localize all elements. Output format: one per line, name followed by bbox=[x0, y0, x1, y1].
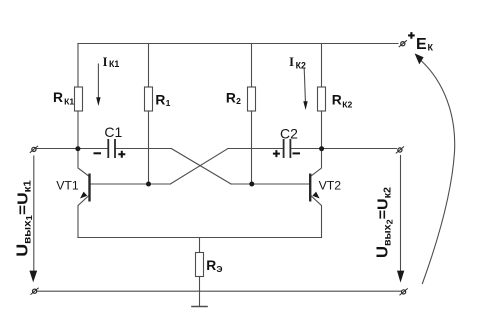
arrow Uvyh1 measure line bbox=[33, 156, 35, 271]
wire VT1 base rail bbox=[91, 183, 171, 185]
arc feedback curve to Ek bbox=[421, 61, 455, 284]
label C2 minus sign bbox=[293, 152, 301, 154]
resistor RK2 bbox=[318, 87, 326, 111]
label C2 plus sign bbox=[273, 150, 280, 157]
ground bbox=[192, 306, 207, 308]
resistor R2 bbox=[248, 87, 256, 111]
resistor RK1 bbox=[75, 87, 83, 111]
wire R1 bottom lead bbox=[148, 111, 150, 184]
svg-text:К1: К1 bbox=[109, 59, 119, 69]
transistor VT2 base bar bbox=[309, 174, 311, 202]
capacitor C1 plates bbox=[108, 139, 115, 158]
wire RE top lead bbox=[199, 238, 201, 253]
node collector VT2 junction bbox=[319, 146, 324, 151]
wire RK2 top lead bbox=[321, 44, 323, 88]
svg-text:RЭ: RЭ bbox=[206, 258, 222, 274]
terminal right bottom bbox=[402, 290, 406, 294]
wire C2 to right terminal bbox=[291, 148, 396, 150]
svg-text:Uвых1=Uк1: Uвых1=Uк1 bbox=[14, 180, 35, 257]
resistor R1 bbox=[145, 87, 153, 111]
transistor VT1 collector bbox=[78, 149, 89, 177]
svg-text:R1: R1 bbox=[155, 93, 170, 108]
transistor VT1 base bar bbox=[88, 174, 90, 202]
arrowhead IK1 bbox=[96, 97, 100, 106]
wire RK2 bottom lead bbox=[321, 111, 323, 149]
transistor VT2 emitter bbox=[310, 195, 321, 238]
arrowhead Uvyh2 bbox=[397, 271, 404, 283]
svg-text:Uвых2=Uк2: Uвых2=Uк2 bbox=[374, 187, 394, 258]
wire emitter rail bbox=[78, 237, 322, 239]
terminal input left top bbox=[32, 147, 36, 151]
terminal output right top bbox=[398, 148, 402, 152]
transistor VT2 collector bbox=[310, 149, 321, 177]
svg-text:VT2: VT2 bbox=[319, 179, 342, 193]
wire crossover to C2 bbox=[228, 148, 283, 150]
capacitor C2 plates bbox=[284, 139, 291, 158]
arrowhead VT1 emitter bbox=[80, 192, 87, 199]
arrowhead feedback arc at Ek bbox=[415, 53, 424, 64]
label C1 minus sign bbox=[94, 152, 102, 154]
wire crossover diagonal down bbox=[171, 149, 231, 185]
node A collector VT1 junction bbox=[75, 146, 80, 151]
arrowhead VT2 emitter bbox=[312, 192, 319, 199]
svg-text:R2: R2 bbox=[226, 90, 241, 106]
svg-text:C1: C1 bbox=[104, 124, 122, 140]
svg-text:EК: EК bbox=[416, 36, 433, 53]
wire R2 bottom lead bbox=[251, 111, 253, 184]
svg-text:RК2: RК2 bbox=[332, 93, 353, 110]
svg-text:VT1: VT1 bbox=[56, 178, 79, 192]
wire RK1 top lead bbox=[77, 44, 79, 88]
wire R2 top lead bbox=[251, 44, 253, 88]
label +Ek plus sign bbox=[408, 32, 415, 39]
wire RE bottom lead to ground bbox=[199, 277, 201, 307]
node R2 to base VT2 junction bbox=[249, 182, 254, 187]
wire top supply rail bbox=[78, 43, 398, 45]
arrow current IK2 bbox=[304, 68, 305, 101]
svg-text:I: I bbox=[289, 55, 294, 69]
wire left input to C1 bbox=[36, 148, 108, 150]
node R1 to base VT1 junction bbox=[146, 182, 151, 187]
wire C1 to crossover bbox=[116, 148, 172, 150]
svg-text:К2: К2 bbox=[296, 60, 306, 70]
wire bottom rail bbox=[37, 290, 401, 292]
terminal +Ek bbox=[401, 42, 405, 46]
svg-text:C2: C2 bbox=[280, 125, 298, 141]
transistor VT1 emitter bbox=[78, 195, 90, 238]
wire crossover to VT2 base bbox=[231, 183, 309, 185]
arrowhead Uvyh1 bbox=[29, 271, 37, 283]
wire crossover diagonal up bbox=[170, 149, 228, 185]
terminal left bottom bbox=[33, 289, 37, 293]
arrow current IK1 bbox=[97, 64, 99, 98]
arrowhead IK2 bbox=[303, 101, 307, 110]
wire R1 top lead bbox=[148, 44, 150, 88]
wire RK1 bottom lead bbox=[77, 111, 79, 149]
arrow Uvyh2 measure line bbox=[400, 156, 402, 272]
svg-text:RК1: RК1 bbox=[53, 90, 74, 106]
resistor RE bbox=[196, 253, 204, 277]
svg-text:I: I bbox=[103, 55, 108, 69]
label C1 plus sign bbox=[118, 151, 125, 158]
